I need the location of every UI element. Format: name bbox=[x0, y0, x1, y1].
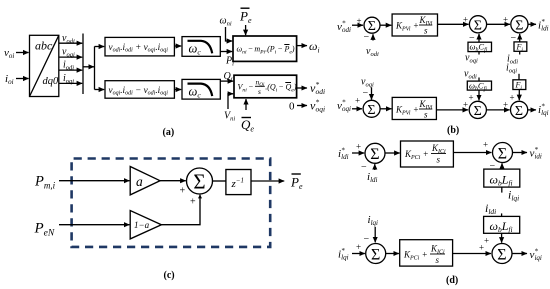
summing junction c bbox=[187, 168, 213, 194]
svg-text:−: − bbox=[363, 88, 369, 99]
wire stub v_odi bbox=[478, 78, 480, 82]
wire wbCfi down into sum b5 bbox=[478, 90, 480, 100]
svg-text:+: + bbox=[479, 243, 484, 253]
gain a triangle bbox=[130, 167, 160, 195]
svg-text:−: − bbox=[364, 234, 370, 245]
wire v_odi bbox=[59, 42, 82, 44]
wire Q_i bbox=[220, 80, 233, 82]
svg-text:+: + bbox=[510, 93, 515, 103]
svg-text:Σ: Σ bbox=[193, 170, 205, 194]
svg-text:Σ: Σ bbox=[515, 104, 523, 119]
wire i_oqi bbox=[59, 82, 82, 84]
wire P_i bbox=[220, 51, 232, 53]
block F_i top bbox=[514, 42, 527, 51]
wire sum to PI current d bbox=[385, 152, 400, 154]
wire F_i up into sum b3 bbox=[519, 34, 521, 42]
block wb Lfi top bbox=[484, 169, 520, 187]
wire F_i down into sum b6 bbox=[518, 90, 520, 101]
svg-text:a: a bbox=[136, 174, 143, 189]
summing junction b2 bbox=[469, 16, 486, 33]
wire reactive to filter2 bbox=[174, 89, 181, 91]
wire stub i_oqi bbox=[518, 74, 520, 80]
wire wbLfi down into sum d4 bbox=[501, 233, 503, 242]
block PI voltage controller d bbox=[392, 14, 437, 36]
svg-text:Σ: Σ bbox=[474, 18, 482, 33]
dashed averaging box bbox=[72, 159, 271, 247]
svg-text:+: + bbox=[180, 186, 186, 197]
svg-text:Σ: Σ bbox=[368, 19, 376, 34]
summing junction b5 bbox=[469, 101, 486, 118]
node i_oi input wire bbox=[16, 78, 29, 80]
wire i_odi bbox=[59, 69, 82, 71]
wire PI to sum d2 bbox=[453, 152, 491, 154]
wire Pbar_e input bbox=[245, 25, 247, 35]
wire sum b5 to sum b6 bbox=[486, 109, 509, 111]
wire v*_odi into sum bbox=[352, 24, 363, 26]
svg-text:Σ: Σ bbox=[498, 145, 507, 162]
wire power to filter1 bbox=[174, 45, 181, 47]
wire v_odi feedback up bbox=[372, 34, 374, 40]
block low-pass filter wc (P) bbox=[182, 37, 220, 57]
svg-text:1−a: 1−a bbox=[134, 220, 150, 230]
summing junction b3 bbox=[511, 16, 528, 33]
block wb Lfi bottom bbox=[484, 216, 520, 233]
wire stub i_lqi bbox=[501, 187, 503, 193]
svg-text:Σ: Σ bbox=[370, 146, 379, 163]
wire v*_iqi output bbox=[512, 253, 527, 255]
summing junction b6 bbox=[510, 101, 527, 118]
wire sum b4 to PI q bbox=[380, 108, 391, 110]
summing junction d3 bbox=[366, 244, 386, 264]
wire stub i_ldi down bbox=[501, 213, 503, 216]
node bus vertical bbox=[82, 34, 84, 95]
svg-text:+: + bbox=[463, 15, 468, 25]
wire v*_idi output bbox=[513, 152, 528, 154]
wire i*_lqi into sum d3 bbox=[352, 253, 365, 255]
svg-text:abc: abc bbox=[35, 38, 53, 52]
svg-text:(d): (d) bbox=[446, 275, 458, 286]
svg-text:(a): (a) bbox=[163, 127, 175, 138]
wire i*_ldi output bbox=[528, 23, 536, 25]
wire 0 to v*_oqi bbox=[297, 105, 307, 107]
block wb Cfi top bbox=[468, 42, 492, 51]
svg-text:+: + bbox=[356, 142, 361, 152]
svg-text:+: + bbox=[463, 100, 468, 110]
wire a to sum bbox=[160, 180, 186, 182]
wire omega_i output bbox=[297, 45, 307, 47]
block PI voltage controller q bbox=[392, 97, 436, 119]
svg-text:+: + bbox=[503, 15, 508, 25]
wire V_ni bbox=[228, 94, 233, 109]
summing junction b1 bbox=[364, 17, 380, 33]
block wb Cfi bottom bbox=[467, 81, 491, 90]
block z^-1 bbox=[226, 170, 251, 195]
svg-text:+: + bbox=[190, 197, 196, 208]
block F_i bottom bbox=[513, 80, 526, 90]
wire bus to split bbox=[83, 66, 94, 68]
wire Qbar_e input bbox=[245, 99, 247, 110]
wire v_oqi bbox=[59, 56, 82, 58]
svg-text:(b): (b) bbox=[447, 125, 459, 136]
summing junction d4 bbox=[492, 244, 512, 264]
wire wbCfi up into sum b2 bbox=[478, 34, 480, 42]
wire sum b2 to sum b3 bbox=[487, 23, 510, 25]
wire into power block bbox=[95, 46, 105, 48]
svg-text:dq0: dq0 bbox=[43, 76, 60, 87]
gain 1-a triangle bbox=[130, 211, 161, 239]
wire wbLfi up into sum d2 bbox=[501, 163, 503, 169]
wire sum d3 to PI q bbox=[386, 253, 399, 255]
svg-text:s: s bbox=[437, 155, 441, 165]
block instantaneous active power bbox=[105, 37, 174, 56]
svg-text:Σ: Σ bbox=[497, 246, 506, 263]
wire PI to sum d4 bbox=[453, 253, 491, 255]
wire sum to z-1 bbox=[213, 180, 226, 182]
wire PI to sum b5 bbox=[436, 109, 468, 111]
block abc/dq0 transformation bbox=[30, 35, 59, 96]
svg-text:+: + bbox=[484, 236, 489, 246]
block instantaneous reactive power bbox=[105, 81, 174, 99]
summing junction d1 bbox=[365, 143, 385, 163]
wire i*_ldi into sum bbox=[352, 152, 364, 154]
svg-text:+: + bbox=[355, 96, 360, 106]
wire 1-a to sum bottom bbox=[161, 195, 200, 225]
block PI current controller d bbox=[401, 141, 454, 167]
svg-text:+: + bbox=[469, 93, 474, 103]
svg-text:Σ: Σ bbox=[367, 103, 375, 118]
svg-text:(c): (c) bbox=[164, 270, 175, 281]
wire PI to sum b2 bbox=[438, 23, 469, 25]
svg-text:s: s bbox=[424, 110, 428, 120]
wire v*_odi output bbox=[297, 87, 307, 89]
svg-text:−: − bbox=[490, 161, 496, 172]
node split vertical bbox=[94, 47, 96, 90]
summing junction d2 bbox=[493, 143, 513, 163]
svg-text:+: + bbox=[483, 140, 488, 150]
svg-text:s: s bbox=[258, 87, 261, 96]
wire Pbar_e output bbox=[251, 180, 284, 182]
wire stub v_oqi bbox=[478, 52, 480, 55]
wire omega_ni bbox=[226, 27, 233, 41]
svg-text:+: + bbox=[356, 242, 361, 252]
svg-text:Σ: Σ bbox=[515, 18, 523, 33]
wire i_ldi feedback up bbox=[374, 164, 376, 170]
svg-text:s: s bbox=[436, 255, 440, 265]
wire i_lqi down into sum d3 bbox=[374, 227, 376, 243]
block low-pass filter wc (Q) bbox=[182, 79, 220, 99]
wire into reactive block bbox=[95, 89, 105, 91]
block voltage droop bbox=[234, 75, 297, 98]
svg-text:Σ: Σ bbox=[371, 246, 380, 263]
wire P_eN bbox=[59, 224, 129, 226]
svg-text:s: s bbox=[424, 26, 428, 36]
block frequency droop bbox=[233, 36, 297, 61]
wire v_oqi down into sum b4 bbox=[371, 87, 373, 99]
wire P_mi bbox=[59, 180, 129, 182]
block PI current controller q bbox=[400, 240, 453, 266]
svg-text:Σ: Σ bbox=[474, 104, 482, 119]
summing junction b4 bbox=[363, 100, 380, 117]
node v_oi input wire bbox=[16, 52, 29, 54]
wire sum to PI voltage d bbox=[380, 24, 391, 26]
wire i*_lqi output bbox=[528, 109, 536, 111]
wire v*_oqi into sum b4 bbox=[352, 108, 362, 110]
svg-text:+: + bbox=[503, 100, 508, 110]
svg-text:0: 0 bbox=[289, 101, 295, 113]
wire stub i_odi bbox=[519, 51, 521, 54]
svg-text:+: + bbox=[357, 16, 362, 26]
